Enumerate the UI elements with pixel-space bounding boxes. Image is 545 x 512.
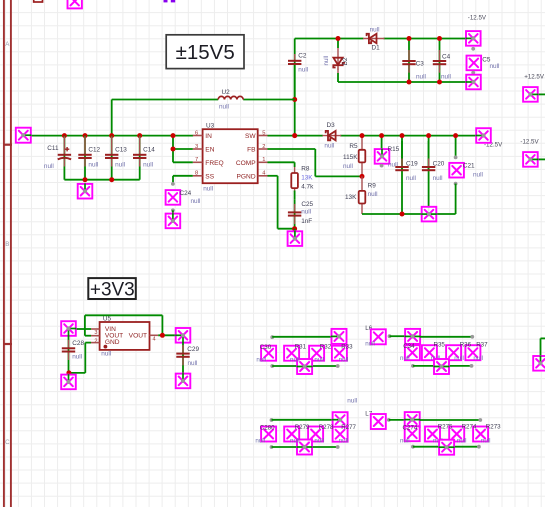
svg-text:SW: SW — [245, 133, 256, 140]
svg-text:R37: R37 — [476, 341, 488, 348]
svg-text:C20: C20 — [433, 160, 445, 167]
svg-text:null: null — [457, 437, 467, 444]
svg-text:null: null — [203, 185, 213, 192]
svg-text:115K: 115K — [343, 154, 358, 161]
svg-text:null: null — [290, 437, 300, 444]
svg-text:7: 7 — [195, 157, 198, 163]
svg-text:SS: SS — [205, 174, 214, 181]
svg-text:null: null — [143, 162, 153, 169]
svg-text:C: C — [5, 439, 10, 446]
svg-text:null: null — [490, 63, 500, 70]
svg-text:4: 4 — [153, 336, 156, 342]
svg-text:-12.5V: -12.5V — [520, 138, 539, 145]
svg-text:null: null — [256, 356, 266, 363]
svg-text:null: null — [454, 355, 464, 362]
svg-text:VOUT: VOUT — [129, 333, 147, 340]
svg-text:GND: GND — [105, 339, 120, 346]
svg-text:null: null — [473, 171, 483, 178]
svg-text:R8: R8 — [301, 165, 310, 172]
svg-text:1: 1 — [262, 157, 265, 163]
svg-text:R5: R5 — [349, 143, 358, 150]
svg-text:R278: R278 — [319, 424, 334, 431]
svg-text:null: null — [88, 162, 98, 169]
svg-text:C3: C3 — [416, 60, 425, 67]
svg-text:null: null — [481, 437, 491, 444]
svg-text:C34: C34 — [403, 343, 415, 350]
svg-text:4.7k: 4.7k — [301, 183, 314, 190]
svg-text:1nF: 1nF — [301, 218, 312, 225]
svg-text:6: 6 — [195, 130, 198, 136]
svg-text:+3V3: +3V3 — [90, 280, 135, 301]
svg-text:5: 5 — [262, 130, 265, 136]
svg-text:C280: C280 — [260, 424, 275, 431]
svg-text:null: null — [301, 208, 311, 215]
svg-text:U5: U5 — [103, 316, 112, 323]
svg-text:FREQ: FREQ — [205, 160, 223, 167]
svg-text:R35: R35 — [434, 341, 446, 348]
svg-text:D3: D3 — [327, 122, 336, 129]
svg-text:C25: C25 — [301, 201, 313, 208]
svg-text:D1: D1 — [372, 45, 381, 52]
svg-text:null: null — [406, 175, 416, 182]
svg-text:null: null — [400, 355, 410, 362]
svg-text:null: null — [433, 175, 443, 182]
svg-text:null: null — [323, 56, 330, 66]
svg-text:R275: R275 — [438, 424, 453, 431]
svg-text:C28: C28 — [72, 340, 84, 347]
svg-text:null: null — [365, 340, 375, 347]
svg-text:C24: C24 — [180, 190, 192, 197]
svg-text:PGND: PGND — [237, 174, 256, 181]
svg-text:C19: C19 — [406, 160, 418, 167]
svg-text:null: null — [255, 437, 265, 444]
svg-text:13K: 13K — [301, 174, 313, 181]
svg-text:null: null — [115, 162, 125, 169]
svg-text:R273: R273 — [486, 424, 501, 431]
svg-text:null: null — [343, 163, 353, 170]
svg-text:C11: C11 — [47, 145, 59, 152]
svg-text:C21: C21 — [463, 162, 475, 169]
svg-text:R9: R9 — [368, 182, 377, 189]
svg-text:8: 8 — [195, 171, 198, 177]
svg-text:+12.5V: +12.5V — [524, 73, 545, 80]
svg-text:U3: U3 — [206, 122, 215, 129]
svg-text:C13: C13 — [115, 146, 127, 153]
svg-text:R277: R277 — [341, 424, 356, 431]
svg-text:C2: C2 — [298, 52, 307, 59]
svg-text:null: null — [191, 198, 201, 205]
svg-text:null: null — [339, 437, 349, 444]
svg-text:C274: C274 — [403, 424, 418, 431]
svg-text:R31: R31 — [295, 344, 307, 351]
svg-text:null: null — [188, 360, 198, 367]
svg-text:D2: D2 — [342, 57, 349, 65]
svg-text:null: null — [72, 354, 82, 361]
svg-text:C29: C29 — [187, 346, 199, 353]
svg-text:null: null — [370, 27, 380, 34]
svg-text:null: null — [368, 191, 378, 198]
svg-text:null: null — [416, 74, 426, 81]
svg-text:null: null — [441, 74, 451, 81]
svg-text:R33: R33 — [341, 344, 353, 351]
svg-text:null: null — [298, 66, 308, 73]
svg-text:null: null — [44, 163, 54, 170]
svg-text:R32: R32 — [320, 344, 332, 351]
svg-text:null: null — [473, 355, 483, 362]
svg-text:IN: IN — [205, 133, 212, 140]
svg-text:2: 2 — [262, 144, 265, 150]
svg-text:±15V5: ±15V5 — [176, 41, 235, 64]
svg-text:3: 3 — [94, 330, 97, 336]
svg-text:13K: 13K — [345, 194, 357, 201]
svg-text:-12.5V: -12.5V — [468, 15, 487, 22]
svg-text:3: 3 — [195, 144, 198, 150]
svg-text:null: null — [347, 398, 357, 405]
svg-text:COMP: COMP — [236, 160, 256, 167]
svg-text:EN: EN — [205, 147, 214, 154]
svg-text:C4: C4 — [442, 54, 451, 61]
svg-text:null: null — [339, 356, 349, 363]
svg-text:R36: R36 — [460, 341, 472, 348]
svg-text:B: B — [5, 241, 9, 248]
svg-text:C30: C30 — [260, 344, 272, 351]
svg-text:U2: U2 — [222, 89, 231, 96]
svg-text:null: null — [290, 356, 300, 363]
svg-text:null: null — [101, 350, 111, 357]
svg-text:C14: C14 — [143, 146, 155, 153]
svg-text:null: null — [400, 437, 410, 444]
svg-text:null: null — [219, 104, 229, 111]
svg-text:null: null — [314, 437, 324, 444]
svg-text:FB: FB — [247, 147, 256, 154]
svg-text:R274: R274 — [462, 424, 477, 431]
svg-text:null: null — [314, 356, 324, 363]
svg-text:R15: R15 — [388, 146, 400, 153]
svg-text:R279: R279 — [295, 424, 310, 431]
svg-text:C12: C12 — [88, 146, 100, 153]
svg-text:null: null — [324, 143, 334, 150]
